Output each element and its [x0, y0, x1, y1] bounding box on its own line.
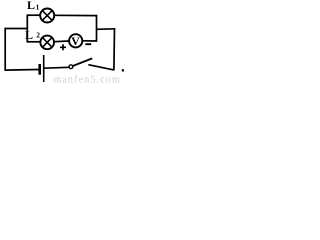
watermark manfen5.com: [54, 75, 121, 86]
wire voltmeter to right junction: [82, 40, 97, 42]
svg-text:V: V: [71, 34, 80, 48]
battery negative plate (short thick): [38, 64, 41, 75]
wire lamp L2 to voltmeter: [54, 40, 70, 43]
wire left inner vertical (junction of branches): [26, 15, 28, 43]
lamp L2: [40, 36, 54, 50]
svg-text:1: 1: [36, 3, 40, 12]
wire right tap (outer top-right horizontal): [96, 28, 115, 31]
wire right inner vertical (junction of branches): [96, 15, 98, 42]
switch pivot node: [69, 65, 73, 69]
wire left outer vertical: [4, 28, 6, 71]
wire mid branch left (to lamp L2): [27, 41, 41, 43]
lamp L1: [40, 9, 54, 23]
label L1: [27, 0, 40, 12]
wire right outer vertical: [113, 28, 116, 70]
wire left tap (outer top-left horizontal): [5, 28, 28, 30]
wire top branch left (to lamp L1): [27, 14, 41, 16]
voltmeter V: [69, 34, 82, 48]
switch lever (open): [73, 58, 93, 66]
scan speck (right edge): [122, 69, 124, 72]
wire top branch right (lamp L1 to right junction): [54, 14, 97, 16]
wire battery to switch: [44, 66, 69, 69]
svg-text:L: L: [25, 28, 33, 42]
label L2: [25, 28, 40, 42]
svg-text:2: 2: [36, 31, 40, 40]
wire switch contact to bottom-right corner: [88, 65, 114, 70]
battery positive plate (long thin): [43, 55, 45, 82]
wire bottom left (to battery): [5, 69, 39, 72]
label - (voltmeter negative terminal): [85, 43, 91, 45]
label + (voltmeter positive terminal): [60, 44, 66, 50]
svg-text:manfen5.com: manfen5.com: [54, 75, 121, 85]
svg-text:L: L: [27, 0, 35, 12]
